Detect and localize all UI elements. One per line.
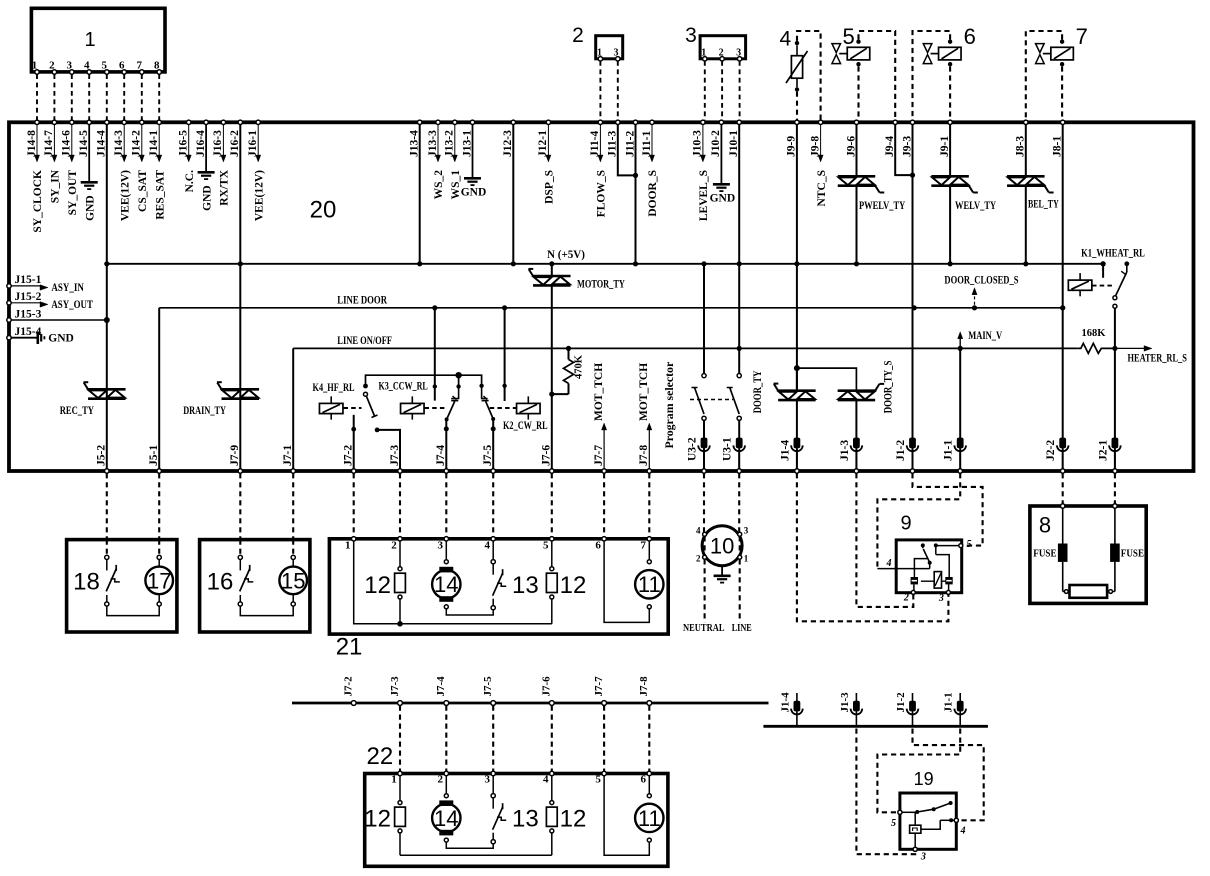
svg-text:11: 11 bbox=[638, 806, 661, 831]
wire box1 pin 6 to J14-3 bbox=[123, 74, 125, 120]
svg-text:1: 1 bbox=[391, 774, 397, 786]
K4 dashed link bbox=[344, 407, 362, 409]
svg-text:4: 4 bbox=[779, 28, 791, 51]
pin J9-4 bbox=[893, 120, 897, 124]
svg-text:8: 8 bbox=[1039, 512, 1051, 537]
box22 pin 2 bbox=[444, 771, 448, 775]
svg-text:WS_2: WS_2 bbox=[433, 170, 445, 200]
svg-text:RX/TX: RX/TX bbox=[219, 169, 231, 205]
arrow J13-2 bbox=[454, 124, 456, 156]
box8 pin left bbox=[1061, 504, 1065, 508]
wire J15-4 to ground bbox=[11, 337, 37, 339]
svg-text:HEATER_RL_S: HEATER_RL_S bbox=[1128, 353, 1187, 365]
box19 switch arm bbox=[917, 803, 950, 812]
svg-text:5: 5 bbox=[543, 540, 549, 552]
switch 18 bbox=[105, 555, 109, 559]
dashed wire to box22 bbox=[551, 706, 553, 772]
svg-text:GND: GND bbox=[710, 192, 736, 204]
svg-text:J7-7: J7-7 bbox=[593, 445, 605, 466]
box9 relay coil bbox=[934, 572, 941, 589]
wire 16 to 15 bbox=[240, 606, 293, 616]
svg-text:U3-1: U3-1 bbox=[722, 437, 734, 461]
dashed wire J1-2 lower to box19 pin4 bbox=[913, 729, 984, 821]
svg-text:BEL_TY: BEL_TY bbox=[1028, 199, 1059, 211]
box19 terminal 3 bbox=[913, 847, 917, 851]
svg-text:J7-3: J7-3 bbox=[389, 445, 401, 466]
wire 18 to 17 bbox=[107, 606, 159, 616]
svg-text:16: 16 bbox=[207, 569, 234, 596]
ground at J13-1 bbox=[472, 124, 474, 178]
svg-text:J11-1: J11-1 bbox=[641, 131, 653, 157]
svg-text:J10-3: J10-3 bbox=[692, 130, 704, 157]
svg-text:J7-6: J7-6 bbox=[541, 676, 553, 697]
wire J7-1 up to LINE ON/OFF bbox=[292, 348, 294, 469]
svg-text:15: 15 bbox=[281, 568, 305, 593]
box21 pin 3 bbox=[444, 537, 448, 541]
svg-text:3: 3 bbox=[484, 774, 490, 786]
svg-text:4: 4 bbox=[543, 774, 549, 786]
box 19 bbox=[900, 793, 956, 849]
dashed wire from board edge bbox=[353, 473, 355, 539]
svg-text:J7-8: J7-8 bbox=[638, 445, 650, 466]
pin J1-1 bbox=[957, 438, 964, 449]
arrow J14-2 bbox=[141, 124, 143, 156]
pin J9-3 bbox=[910, 120, 914, 124]
box22 wire pin5 to lamp bbox=[604, 776, 649, 856]
svg-text:4: 4 bbox=[696, 526, 701, 536]
svg-text:168K: 168K bbox=[1082, 328, 1107, 339]
box22 pin 1 bbox=[398, 771, 402, 775]
pin J7-2 lower bbox=[351, 701, 356, 706]
triac DOOR_TY bbox=[796, 368, 798, 391]
dashed wire valve6 to J9-1 bbox=[949, 66, 951, 120]
dashed wire to box22 bbox=[648, 706, 650, 772]
connector box 22 bbox=[365, 774, 668, 867]
pin J9-9 bbox=[795, 120, 799, 124]
svg-text:21: 21 bbox=[336, 633, 363, 660]
dashed wire to box22 bbox=[399, 706, 401, 772]
svg-text:7: 7 bbox=[1076, 24, 1088, 49]
dashed wire valve7 top loop to J8-3 bbox=[1026, 31, 1062, 120]
svg-text:PWELV_TY: PWELV_TY bbox=[859, 200, 906, 212]
pin J13-3 bbox=[436, 120, 440, 124]
svg-text:13: 13 bbox=[512, 572, 539, 599]
svg-text:1: 1 bbox=[744, 554, 749, 564]
svg-text:J7-9: J7-9 bbox=[229, 445, 241, 466]
svg-text:J16-1: J16-1 bbox=[247, 130, 259, 157]
svg-text:3: 3 bbox=[938, 593, 944, 604]
relay K3 coil bbox=[401, 403, 425, 413]
wire LINE DOOR drop to K2 contact bbox=[504, 308, 506, 401]
connector box 3 bbox=[700, 36, 746, 59]
dashed wire valve5 top loop to J9-4 bbox=[859, 31, 896, 120]
svg-text:DOOR_TY: DOOR_TY bbox=[750, 370, 764, 413]
relay K2 coil bbox=[517, 403, 541, 413]
bus N(+5V) bbox=[107, 263, 1103, 265]
svg-text:J14-8: J14-8 bbox=[26, 130, 38, 157]
svg-text:13: 13 bbox=[512, 806, 539, 833]
ground at J14-5 bbox=[88, 124, 90, 182]
wire box1 pin 7 to J14-2 bbox=[141, 74, 143, 120]
svg-text:5: 5 bbox=[967, 539, 972, 550]
pin J16-5 bbox=[187, 120, 191, 124]
dashed wire J1-4 to box9 pin3 bbox=[797, 473, 949, 621]
svg-text:SY_CLOCK: SY_CLOCK bbox=[32, 170, 44, 233]
svg-text:VEE(12V): VEE(12V) bbox=[253, 170, 265, 221]
svg-text:17: 17 bbox=[147, 568, 171, 593]
arrow J16-3 bbox=[222, 124, 224, 156]
arrow J16-1 bbox=[257, 124, 259, 156]
connector box 2 bbox=[596, 36, 623, 59]
wire box3 pin 2 down bbox=[721, 61, 723, 120]
selector switch U3-2 bbox=[703, 264, 705, 374]
box19 terminal 4 bbox=[954, 818, 958, 822]
dashed wire valve7 to J8-1 bbox=[1061, 66, 1063, 120]
svg-text:6: 6 bbox=[641, 774, 647, 786]
dashed wire to box22 bbox=[445, 706, 447, 772]
box22 lamp 11 at pin6 bbox=[648, 776, 650, 794]
svg-text:FUSE: FUSE bbox=[1033, 549, 1056, 560]
pin J7-8 lower bbox=[647, 701, 652, 706]
connector box 1 bbox=[31, 8, 165, 72]
pin J11-3 bbox=[616, 120, 620, 124]
svg-text:J2-1: J2-1 bbox=[1097, 440, 1109, 461]
filter pin 4 bbox=[703, 532, 707, 536]
triac PWELV_TY bbox=[856, 124, 858, 176]
triac BEL_TY bbox=[1025, 124, 1027, 176]
svg-text:12: 12 bbox=[364, 806, 391, 833]
svg-text:J9-8: J9-8 bbox=[809, 136, 821, 157]
svg-text:J16-4: J16-4 bbox=[195, 130, 207, 157]
svg-text:K1_WHEAT_RL: K1_WHEAT_RL bbox=[1081, 248, 1145, 260]
svg-text:19: 19 bbox=[914, 769, 934, 789]
net HEATER_RL_S bbox=[1112, 346, 1117, 351]
arrow J16-5 bbox=[188, 124, 190, 156]
pin J16-3 bbox=[221, 120, 225, 124]
dashed wire to box22 bbox=[492, 706, 494, 772]
pin J14-5 bbox=[87, 120, 91, 124]
dashed wire from board edge bbox=[492, 473, 494, 539]
pin J13-1 bbox=[470, 120, 474, 124]
pin J10-3 bbox=[701, 120, 705, 124]
ground at J10-2 bbox=[720, 124, 722, 184]
solenoid valve 5 bbox=[847, 47, 870, 60]
svg-text:12: 12 bbox=[560, 572, 587, 599]
svg-text:5: 5 bbox=[891, 818, 896, 829]
svg-text:DRAIN_TY: DRAIN_TY bbox=[183, 405, 226, 417]
wire J10-1 to program selector bbox=[738, 124, 740, 373]
svg-text:K4_HF_RL: K4_HF_RL bbox=[313, 382, 355, 394]
arrow J14-3 bbox=[123, 124, 125, 156]
svg-text:J14-1: J14-1 bbox=[148, 130, 160, 157]
dashed wire from board edge bbox=[703, 473, 705, 532]
net LINE ON/OFF bbox=[293, 347, 1078, 349]
svg-text:4: 4 bbox=[484, 540, 490, 552]
triac REC_TY bbox=[88, 388, 126, 391]
svg-text:LINE DOOR: LINE DOOR bbox=[337, 295, 387, 307]
dashed wire J1-2 to box9 pin5 bbox=[913, 473, 983, 545]
pin J1-2 bbox=[909, 438, 916, 449]
pin J2-1 bbox=[1112, 438, 1119, 449]
wire W1 relay commons bbox=[366, 375, 482, 386]
pin J1-3 lower bbox=[855, 693, 857, 726]
dashed wire from board edge bbox=[1062, 473, 1064, 506]
arrow J14-8 bbox=[36, 124, 38, 156]
arrow J14-6 bbox=[71, 124, 73, 156]
box22 pin 6 bbox=[647, 771, 651, 775]
pin J7-4 lower bbox=[444, 701, 449, 706]
box9 terminal 4 wire bbox=[877, 568, 929, 570]
box21 pin 6 bbox=[602, 537, 606, 541]
wire box3 pin 3 down bbox=[739, 61, 741, 120]
pin J11-4 bbox=[598, 120, 602, 124]
svg-text:WELV_TY: WELV_TY bbox=[955, 200, 997, 212]
pin J1-2 lower bbox=[912, 693, 914, 726]
wire J8-1 to J2-2 vertical bbox=[1062, 124, 1064, 469]
dashed wire valve5 to J9-6 bbox=[857, 66, 859, 120]
dashed wire NTC to J9-9 bbox=[796, 92, 798, 121]
dashed wire valve6 top loop to J9-3 bbox=[913, 31, 951, 120]
wire J5-1 up to LINE DOOR bbox=[158, 308, 160, 470]
box 9 bbox=[896, 540, 962, 593]
ground at J15-4 bbox=[36, 332, 39, 345]
box22 pin 4 bbox=[550, 771, 554, 775]
svg-text:3: 3 bbox=[920, 852, 926, 863]
svg-text:3: 3 bbox=[438, 540, 444, 552]
box21 resistor 12 at pin5 bbox=[551, 541, 553, 567]
svg-text:LINE: LINE bbox=[732, 623, 752, 634]
svg-text:DOOR_TY_S: DOOR_TY_S bbox=[881, 360, 895, 413]
svg-text:J7-3: J7-3 bbox=[389, 676, 401, 697]
ground at filter 10 bbox=[721, 566, 723, 576]
pin J15-3 bbox=[7, 318, 11, 322]
box9 pin 3 bbox=[948, 584, 950, 590]
svg-text:J10-2: J10-2 bbox=[710, 130, 722, 157]
pin J15-4 bbox=[7, 336, 11, 340]
svg-text:22: 22 bbox=[367, 743, 394, 770]
net MOT_TCH arrow bbox=[603, 430, 605, 470]
svg-text:J5-1: J5-1 bbox=[148, 445, 160, 466]
box9 inner frame bbox=[936, 555, 949, 578]
switch 16 bbox=[238, 555, 242, 559]
lamp 17 bbox=[158, 540, 160, 556]
svg-text:J1-3: J1-3 bbox=[839, 440, 851, 461]
svg-text:J7-2: J7-2 bbox=[343, 445, 355, 466]
svg-text:J7-4: J7-4 bbox=[435, 445, 447, 466]
triac DRAIN_TY bbox=[222, 388, 259, 391]
pin J16-1 bbox=[256, 120, 260, 124]
box8 pin right bbox=[1113, 504, 1117, 508]
dashed wire J1-3 to box9 pin2 bbox=[856, 473, 913, 607]
svg-text:J7-1: J7-1 bbox=[282, 445, 294, 466]
selector switch U3-1 bbox=[737, 374, 741, 378]
svg-text:11: 11 bbox=[638, 572, 661, 597]
ground at J16-4 bbox=[205, 124, 207, 172]
wire J9-9 / J1-4 vertical bbox=[796, 124, 798, 390]
filter pin 1 bbox=[738, 555, 742, 559]
svg-text:9: 9 bbox=[900, 513, 911, 535]
svg-text:GND: GND bbox=[201, 185, 213, 211]
filter pin 3 bbox=[738, 532, 742, 536]
arrow J10-3 bbox=[702, 124, 704, 156]
svg-text:J1-2: J1-2 bbox=[895, 692, 907, 713]
dashed inside 16 bbox=[239, 540, 241, 556]
solenoid valve 7 bbox=[1051, 47, 1074, 60]
box22 wire motor to switch bbox=[446, 842, 493, 848]
wire box1 pin 8 to J14-1 bbox=[158, 74, 160, 120]
svg-text:J15-1: J15-1 bbox=[15, 274, 42, 286]
pin J12-1 bbox=[546, 120, 550, 124]
box21 wire pin1 down bbox=[354, 541, 400, 624]
dashed wire NEUTRAL bbox=[704, 536, 706, 555]
svg-text:DOOR_S: DOOR_S bbox=[647, 170, 659, 217]
svg-text:RES_SAT: RES_SAT bbox=[154, 170, 166, 220]
pin J14-3 bbox=[122, 120, 126, 124]
lamp 15 bbox=[292, 540, 294, 556]
box9 pin 2 bbox=[913, 584, 915, 590]
box22 resistor 12 at pin4 bbox=[551, 776, 553, 801]
pin J11-1 bbox=[650, 120, 654, 124]
dashed wire from board edge bbox=[1114, 473, 1116, 506]
NTC thermistor 4 bbox=[791, 56, 802, 78]
K1 switch bbox=[1124, 261, 1129, 266]
svg-text:20: 20 bbox=[310, 197, 337, 224]
svg-text:J14-7: J14-7 bbox=[43, 130, 55, 157]
triac WELV_TY bbox=[949, 124, 951, 176]
box21 wire pin6 to lamp bbox=[604, 541, 649, 622]
svg-text:2: 2 bbox=[903, 593, 909, 604]
pin J9-6 bbox=[854, 120, 858, 124]
wire box2 pin1 to J11-4 bbox=[599, 61, 601, 120]
K1 dashed link bbox=[1092, 285, 1112, 287]
svg-text:2: 2 bbox=[438, 774, 444, 786]
wire J2-1 vertical bbox=[1114, 307, 1116, 470]
pin J15-2 bbox=[7, 301, 11, 305]
wire J14-4 to J5-2 vertical bbox=[106, 124, 108, 469]
pin J7-3 lower bbox=[398, 701, 403, 706]
svg-text:J13-1: J13-1 bbox=[461, 130, 473, 157]
svg-text:J1-4: J1-4 bbox=[779, 440, 791, 461]
svg-text:GND: GND bbox=[461, 186, 487, 198]
wire LINE DOOR drop to K3 contact bbox=[434, 308, 436, 401]
box21 lamp 11 at pin7 bbox=[648, 541, 650, 560]
svg-text:J1-1: J1-1 bbox=[943, 440, 955, 461]
pin J8-1 bbox=[1061, 120, 1065, 124]
box19 coil bbox=[910, 825, 921, 833]
svg-text:REC_TY: REC_TY bbox=[60, 405, 95, 417]
pin J13-4 bbox=[418, 120, 422, 124]
dashed wire from board edge bbox=[603, 473, 605, 539]
box21 motor 14 at pin3 bbox=[445, 541, 447, 560]
arrow J11-1 bbox=[651, 124, 653, 156]
K2 dashed link bbox=[490, 407, 516, 409]
box22 resistor 12 at pin1 bbox=[399, 776, 401, 801]
wire box2 pin3 to J11-3 bbox=[617, 61, 619, 120]
svg-text:J8-3: J8-3 bbox=[1015, 136, 1027, 157]
box 8 bbox=[1030, 506, 1146, 603]
resistor 168K bbox=[1078, 343, 1115, 353]
dashed wire J1-3 lower to box19 pin3 bbox=[856, 729, 911, 855]
pin J14-7 bbox=[52, 120, 56, 124]
pin J12-3 bbox=[511, 120, 515, 124]
svg-text:J1-3: J1-3 bbox=[839, 692, 851, 713]
arrow J14-7 bbox=[53, 124, 55, 156]
triac DOOR_TY_S bbox=[838, 389, 876, 392]
K2 switch bbox=[479, 384, 483, 388]
resistor 470K bbox=[566, 346, 571, 351]
bus J7 lower bbox=[292, 702, 769, 705]
wire J1-4 branch bbox=[794, 365, 800, 371]
svg-text:12: 12 bbox=[364, 572, 391, 599]
svg-text:ASY_IN: ASY_IN bbox=[51, 282, 84, 294]
fuse right bbox=[1114, 508, 1116, 543]
svg-text:J7-7: J7-7 bbox=[593, 676, 605, 697]
indicator box 16/15 bbox=[200, 540, 310, 632]
pin J1-1 lower bbox=[959, 693, 961, 726]
K3 dashed link bbox=[425, 407, 447, 409]
pin J7-6 lower bbox=[549, 701, 554, 706]
svg-text:J16-3: J16-3 bbox=[212, 130, 224, 157]
heater element bbox=[1063, 591, 1065, 593]
relay K1 coil bbox=[1068, 280, 1092, 290]
svg-text:J13-3: J13-3 bbox=[427, 130, 439, 157]
wire box1 pin 4 to J14-5 bbox=[88, 74, 90, 120]
triac MOTOR_TY bbox=[551, 264, 553, 276]
wire J13-4 to bus bbox=[419, 124, 421, 263]
svg-text:J15-2: J15-2 bbox=[15, 291, 42, 303]
svg-text:2: 2 bbox=[696, 554, 701, 564]
dashed wire from board edge bbox=[158, 473, 160, 539]
box19 terminal 5 bbox=[898, 810, 902, 814]
wire J16-2 to J7-9 vertical bbox=[239, 124, 241, 469]
pin J16-2 bbox=[238, 120, 242, 124]
svg-text:J13-2: J13-2 bbox=[444, 130, 456, 157]
box21 pin 1 bbox=[352, 537, 356, 541]
dashed wire from board edge bbox=[106, 473, 108, 539]
box21 pin 7 bbox=[647, 537, 651, 541]
svg-text:5: 5 bbox=[595, 774, 601, 786]
svg-text:NTC_S: NTC_S bbox=[816, 170, 828, 206]
arrow J9-8 bbox=[820, 124, 822, 156]
svg-text:J15-3: J15-3 bbox=[15, 308, 42, 320]
svg-text:N.C.: N.C. bbox=[184, 170, 196, 192]
wire J11-2 to bus bbox=[635, 124, 637, 263]
pin J10-1 bbox=[737, 120, 741, 124]
svg-text:U3-2: U3-2 bbox=[687, 437, 699, 461]
dashed wire from board edge bbox=[292, 473, 294, 539]
K4 switch bbox=[363, 384, 368, 389]
box9 switch bbox=[921, 543, 925, 547]
svg-text:J14-6: J14-6 bbox=[61, 130, 73, 157]
svg-text:J2-2: J2-2 bbox=[1045, 440, 1057, 461]
svg-text:NEUTRAL: NEUTRAL bbox=[683, 623, 725, 634]
wire J11-3 elbow to J11-2 bbox=[618, 124, 636, 175]
K3 switch bbox=[456, 384, 460, 388]
box9 terminal 5 bbox=[959, 544, 963, 548]
svg-text:FUSE: FUSE bbox=[1121, 549, 1144, 560]
svg-text:MOT_TCH: MOT_TCH bbox=[638, 363, 650, 421]
svg-text:GND: GND bbox=[48, 333, 74, 345]
svg-text:J16-5: J16-5 bbox=[178, 130, 190, 157]
box9 terminal block 2 bbox=[911, 577, 918, 584]
svg-text:J14-4: J14-4 bbox=[96, 130, 108, 157]
svg-text:MOT_TCH: MOT_TCH bbox=[593, 363, 605, 421]
dashed wire J1-1 lower to box19 pin5 bbox=[877, 729, 960, 813]
svg-text:MAIN_V: MAIN_V bbox=[968, 330, 1003, 342]
svg-text:LINE ON/OFF: LINE ON/OFF bbox=[337, 335, 392, 347]
svg-text:J7-5: J7-5 bbox=[482, 676, 494, 697]
svg-text:K3_CCW_RL: K3_CCW_RL bbox=[379, 381, 429, 393]
